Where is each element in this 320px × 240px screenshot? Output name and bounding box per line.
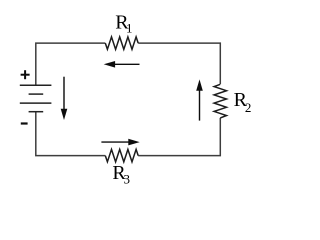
svg-text:2: 2 [245,100,252,115]
battery B1 plate long top [20,84,52,86]
current arrow left (under R1) [114,63,140,65]
wire top-left segment [36,43,106,85]
svg-text:1: 1 [126,21,133,36]
battery B1 plate short upper [29,93,44,95]
wire right-bottom segment [138,118,220,156]
wire bottom-left segment [36,112,106,156]
svg-text:3: 3 [124,171,131,186]
current arrow right (above R3) [101,141,130,143]
battery B1 plate short bottom [29,111,44,113]
resistor R3 [105,149,138,161]
resistor R1 [105,37,138,49]
battery B1 plate long lower [20,102,52,104]
current arrow down (right of battery) [63,77,65,111]
wire top-right segment [138,43,220,84]
resistor R2 [214,84,226,118]
label - (battery negative) [21,122,28,124]
current arrow up (left of R2) [199,90,201,121]
label + (battery positive) [21,70,30,79]
